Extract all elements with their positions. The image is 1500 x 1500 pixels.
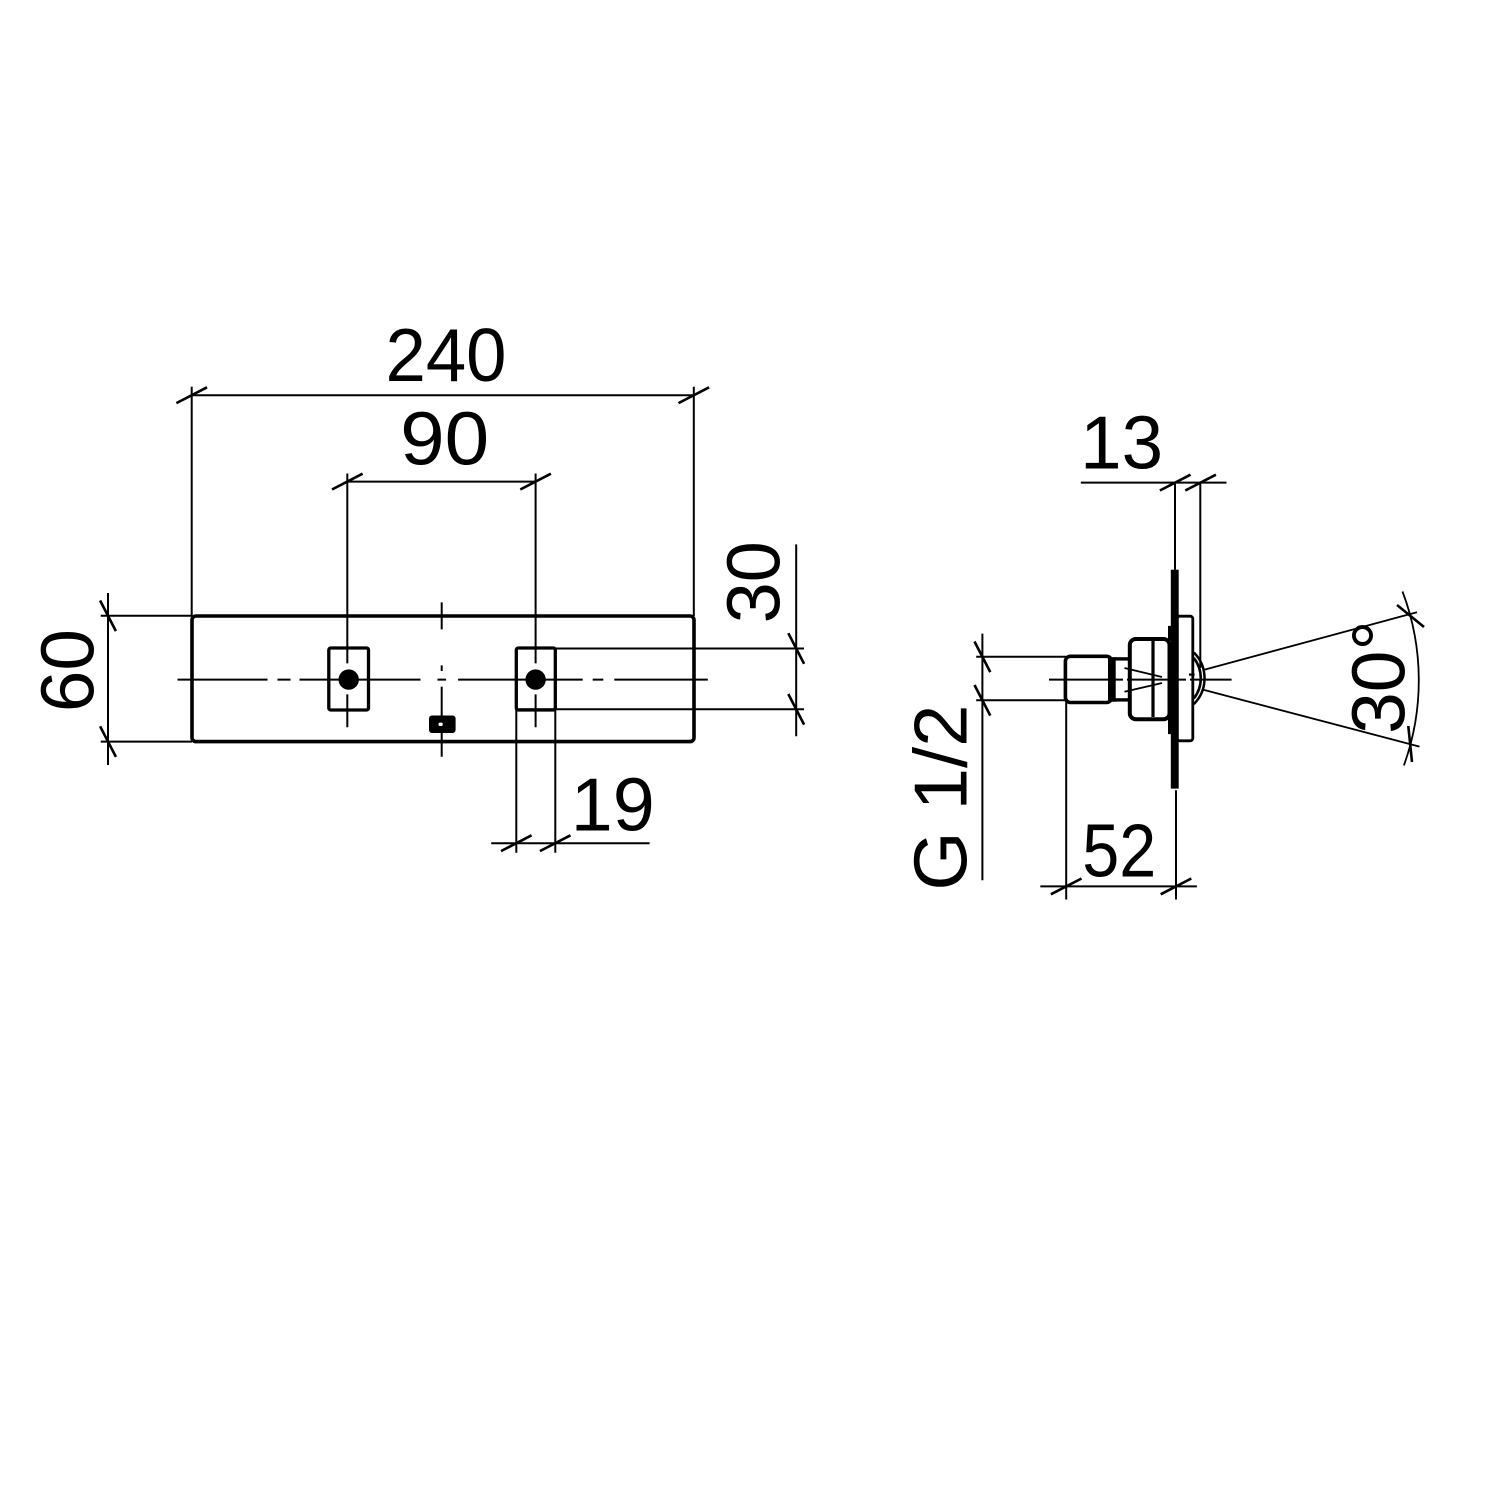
mounting flange tab top (1168, 626, 1171, 641)
nozzle tick (1189, 673, 1195, 675)
valve body (1130, 639, 1170, 719)
valve body inner line (1151, 641, 1154, 717)
dim 240 extension lines (192, 387, 694, 616)
svg-text:90: 90 (400, 397, 489, 481)
svg-text:30°: 30° (1336, 620, 1420, 733)
angle tick upper (1397, 605, 1424, 627)
dim 240 tick right (679, 387, 710, 403)
dim 13 line (1081, 482, 1227, 484)
dim G 1/2 extension lines (976, 657, 1066, 701)
dim 19 extension lines (516, 710, 555, 853)
dim 30 line (795, 544, 797, 736)
sensor window black rect (429, 716, 456, 734)
dim 13 extension line right (1199, 483, 1201, 668)
flow marks (X lines) (1125, 668, 1163, 692)
dim 52 tick right (1161, 879, 1192, 895)
dim G 1/2 tick bottom (975, 685, 991, 716)
left valve screw circle (339, 669, 359, 689)
dim 90 tick left (332, 474, 363, 490)
dim G 1/2 tick top (975, 642, 991, 673)
dim 240 line (192, 394, 694, 396)
spray cone upper line (1203, 612, 1417, 670)
svg-text:60: 60 (25, 629, 109, 712)
right hole vertical centerline (535, 474, 537, 728)
right valve screw circle (525, 669, 545, 689)
spray cone lower line (1203, 690, 1420, 747)
dim 19 tick left (501, 835, 532, 851)
mounting flange tab bottom (1168, 715, 1171, 734)
dim 240 tick left (176, 387, 207, 403)
dim 13 extension line left (1174, 483, 1176, 570)
dim G 1/2 line (981, 634, 983, 881)
svg-text:19: 19 (571, 762, 655, 846)
dim 60 extension lines (101, 616, 192, 742)
horizontal centerline (178, 679, 709, 681)
angle arc (1403, 592, 1419, 766)
left hole vertical centerline (346, 474, 348, 728)
dim 60 tick top (100, 601, 116, 632)
nozzle dome outer arc (1194, 653, 1205, 705)
spigot groove black band (1108, 657, 1116, 701)
svg-text:52: 52 (1082, 809, 1156, 893)
dim 13 tick right (1185, 475, 1216, 491)
dim 30 tick bottom (788, 694, 804, 725)
vertical centerline (441, 602, 443, 757)
dim 90 tick right (520, 474, 551, 490)
dim 60 line (107, 593, 109, 765)
svg-text:240: 240 (386, 313, 507, 397)
dim 30 tick top (788, 633, 804, 664)
collar segment (1114, 659, 1131, 700)
angle tick lower (1408, 726, 1412, 762)
dim 19 line (491, 842, 649, 844)
dim 52 extension lines (1066, 702, 1176, 900)
dim 90 line (347, 481, 535, 483)
right valve hole rectangle (516, 648, 555, 710)
main faceplate body outline (192, 616, 694, 742)
svg-text:13: 13 (1080, 400, 1163, 484)
svg-text:G 1/2: G 1/2 (898, 705, 982, 891)
left valve hole rectangle (329, 648, 369, 710)
dim 19 tick right (540, 835, 571, 851)
dim 52 tick left (1051, 879, 1082, 895)
wall plate (tile) (1171, 570, 1179, 789)
dim 60 tick bottom (100, 726, 116, 757)
dim 52 line (1040, 885, 1197, 887)
G 1/2 spigot body (1065, 656, 1111, 702)
sensor window reflection dot (439, 723, 443, 726)
nozzle ball inner arc (1194, 658, 1201, 699)
svg-text:30: 30 (711, 541, 795, 623)
dim 13 tick left (1160, 475, 1191, 491)
side view centerline (1049, 679, 1232, 681)
escutcheon plate (1177, 616, 1193, 741)
dim 30 extension lines (517, 649, 805, 710)
